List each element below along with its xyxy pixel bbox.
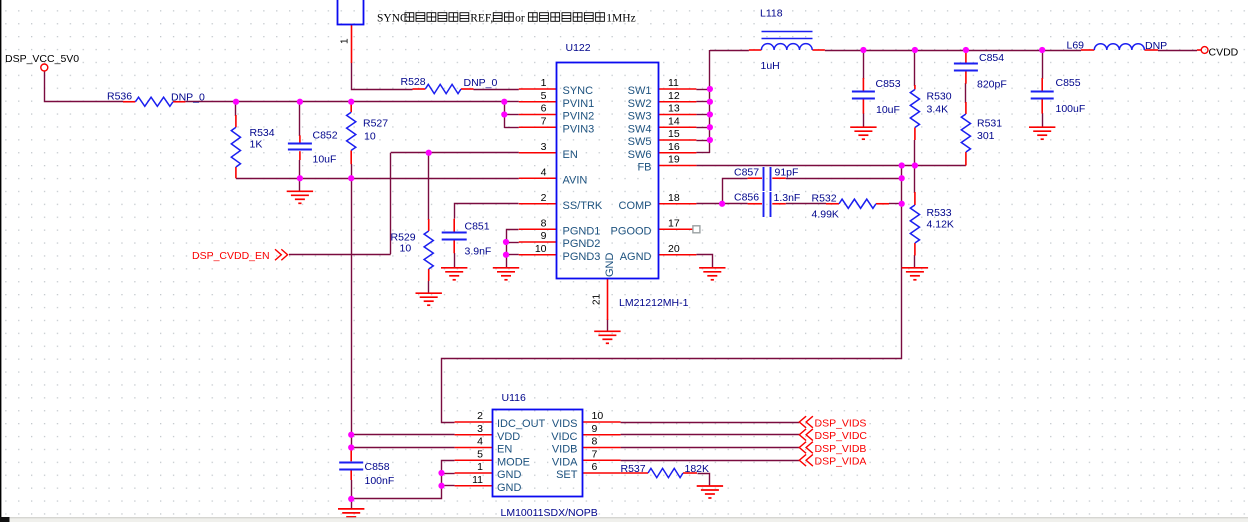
wire COMP to C856	[696, 203, 747, 205]
resistor R531	[961, 114, 970, 152]
svg-text:10: 10	[364, 131, 376, 143]
svg-text:3.4K: 3.4K	[927, 104, 949, 116]
wire VIDB row	[621, 447, 800, 449]
svg-text:301: 301	[977, 130, 995, 142]
wire DSP_VCC_5V0 to R536	[45, 72, 124, 102]
port DSP_VIDA	[799, 454, 813, 466]
svg-text:R537: R537	[621, 463, 646, 475]
wire SW6 link	[696, 152, 710, 154]
svg-text:VIDS: VIDS	[552, 418, 578, 430]
svg-text:3.9nF: 3.9nF	[465, 246, 492, 258]
capacitor C856	[763, 192, 765, 217]
svg-text:C856: C856	[734, 192, 759, 204]
svg-text:SYNC: SYNC	[377, 13, 408, 25]
U116 right pin stubs	[583, 422, 621, 473]
svg-text:10uF: 10uF	[313, 154, 337, 166]
svg-text:R531: R531	[977, 118, 1002, 130]
svg-text:R534: R534	[250, 127, 275, 139]
op-amp U116 body	[493, 410, 583, 497]
svg-text:16: 16	[668, 141, 680, 153]
wire C852 bottom	[299, 160, 301, 179]
wire connector pin1 to R528	[352, 63, 413, 90]
wire SW2 link	[696, 101, 710, 103]
component lead stubs	[123, 50, 1201, 480]
svg-text:EN: EN	[497, 444, 512, 456]
svg-text:1.3nF: 1.3nF	[774, 192, 801, 204]
U122 left pin stubs	[519, 89, 557, 255]
svg-text:6: 6	[592, 461, 598, 473]
svg-text:C855: C855	[1056, 77, 1081, 89]
wire VIDC row	[621, 434, 800, 436]
svg-text:VDD: VDD	[497, 431, 520, 443]
wire U116 GND pin1 stub	[442, 473, 455, 475]
svg-text:5: 5	[541, 90, 547, 102]
op-amp U122 body	[557, 63, 659, 279]
svg-text:DSP_VIDA: DSP_VIDA	[815, 456, 867, 468]
wire C855 top	[1042, 50, 1044, 79]
svg-text:13: 13	[668, 103, 680, 115]
svg-text:SYNC: SYNC	[563, 85, 594, 97]
wire R530 bottom	[914, 140, 916, 166]
svg-text:DSP_VCC_5V0: DSP_VCC_5V0	[5, 53, 79, 65]
ground R529	[416, 293, 442, 305]
wire R533 top	[914, 165, 916, 193]
svg-text:R532: R532	[812, 193, 837, 205]
capacitor C855	[1031, 91, 1054, 93]
svg-text:R533: R533	[927, 207, 952, 219]
ground U122 pin21	[594, 331, 620, 343]
wire DSP_CVDD_EN vertical	[390, 153, 392, 254]
wire SW5 link	[696, 140, 710, 142]
resistor R532	[839, 199, 876, 208]
svg-text:DNP_0: DNP_0	[171, 92, 205, 104]
svg-text:DSP_VIDB: DSP_VIDB	[815, 443, 867, 455]
wire PGND3 stub	[506, 254, 519, 256]
svg-text:U122: U122	[566, 42, 591, 54]
svg-text:VIDB: VIDB	[552, 444, 578, 456]
wire AGND to ground	[697, 255, 713, 268]
svg-text:COMP: COMP	[619, 200, 652, 212]
wire FB row	[696, 165, 966, 167]
svg-text:4: 4	[541, 166, 547, 178]
svg-text:AGND: AGND	[620, 251, 652, 263]
svg-text:100uF: 100uF	[1056, 103, 1086, 115]
wire SW3 link	[696, 114, 710, 116]
svg-text:5: 5	[477, 448, 483, 460]
svg-text:1MHz: 1MHz	[606, 13, 635, 25]
capacitor C857	[763, 167, 765, 191]
svg-text:PGND3: PGND3	[563, 251, 601, 263]
wire U116 VDD row	[351, 434, 454, 436]
svg-text:3: 3	[541, 141, 547, 153]
ground R537	[697, 486, 723, 498]
svg-text:18: 18	[668, 192, 680, 204]
wire R527 bottom	[351, 164, 353, 179]
svg-text:R530: R530	[927, 91, 952, 103]
port DSP_VCC_5V0	[41, 64, 48, 71]
port DSP_VIDB	[799, 442, 813, 454]
wire VIDA row	[621, 460, 800, 462]
wire L118 to L69 rail	[825, 50, 1081, 52]
svg-text:10: 10	[400, 243, 412, 255]
svg-text:VIDC: VIDC	[551, 431, 577, 443]
wire L69 to CVDD	[1158, 50, 1197, 52]
junction dots	[233, 99, 239, 105]
wire R537 to ground	[698, 474, 710, 487]
wire C854 to R531	[965, 83, 967, 103]
svg-text:15: 15	[668, 128, 680, 140]
svg-text:REF,: REF,	[470, 13, 493, 25]
svg-text:IDC_OUT: IDC_OUT	[497, 418, 546, 430]
connector J top	[338, 0, 364, 25]
svg-text:21: 21	[592, 293, 603, 305]
capacitor C851	[442, 232, 467, 234]
svg-text:1uH: 1uH	[761, 60, 780, 72]
svg-text:C854: C854	[979, 52, 1004, 64]
wire AVIN row	[351, 178, 519, 180]
svg-text:10: 10	[535, 243, 547, 255]
wire R533 ground stem	[914, 255, 916, 268]
wire PVIN2 stub	[504, 114, 519, 116]
resistor R528	[425, 84, 461, 93]
wire ground row R534/C852/R527	[236, 178, 351, 180]
svg-text:CVDD: CVDD	[1209, 47, 1239, 59]
wire R529 top	[428, 152, 430, 220]
svg-text:9: 9	[592, 423, 598, 435]
svg-text:DSP_VIDC: DSP_VIDC	[815, 430, 868, 442]
U116 left pin stubs	[455, 422, 493, 486]
svg-text:DSP_CVDD_EN: DSP_CVDD_EN	[192, 250, 270, 262]
svg-text:SET: SET	[556, 469, 578, 481]
wire C856 to R532	[786, 203, 826, 205]
svg-text:91pF: 91pF	[775, 167, 799, 179]
svg-text:SS/TRK: SS/TRK	[563, 200, 603, 212]
svg-text:or: or	[515, 13, 525, 25]
wire C853 ground stem	[863, 113, 865, 128]
svg-text:C852: C852	[313, 130, 338, 142]
ground C858	[338, 509, 364, 521]
wire C852 top	[299, 101, 301, 136]
svg-text:4.99K: 4.99K	[812, 209, 839, 221]
svg-text:C858: C858	[365, 461, 390, 473]
svg-text:DNP: DNP	[1145, 40, 1167, 52]
svg-text:U116: U116	[502, 392, 526, 404]
svg-text:R527: R527	[363, 118, 388, 130]
wire PVIN vertical bar	[504, 101, 506, 128]
wire C858 ground stem	[351, 498, 353, 509]
svg-text:C851: C851	[465, 221, 490, 233]
wire SW4 link	[696, 127, 710, 129]
inductor L69	[1094, 44, 1144, 50]
svg-text:2: 2	[541, 192, 547, 204]
ground AGND	[699, 268, 725, 280]
wire U116 GND pin11 stub	[442, 485, 455, 487]
wire EN row U122	[391, 152, 519, 154]
resistor R527	[347, 112, 356, 150]
capacitor C854	[954, 63, 978, 65]
wire C853 top	[863, 50, 865, 79]
svg-text:182K: 182K	[685, 463, 710, 475]
svg-text:EN: EN	[563, 149, 578, 161]
svg-text:L118: L118	[760, 8, 783, 20]
svg-text:10uF: 10uF	[876, 104, 900, 116]
svg-text:FB: FB	[637, 162, 651, 174]
svg-text:VIDA: VIDA	[552, 456, 578, 468]
svg-text:10: 10	[592, 410, 604, 422]
svg-text:GND: GND	[497, 469, 522, 481]
wire FB net down to U116 IDC_OUT	[442, 166, 902, 423]
wire U116 EN row	[351, 447, 454, 449]
svg-text:11: 11	[668, 77, 679, 89]
svg-text:1K: 1K	[250, 139, 263, 151]
svg-text:SW1: SW1	[628, 85, 652, 97]
svg-text:1: 1	[340, 38, 351, 44]
ground C853	[850, 127, 876, 139]
capacitor C853	[852, 91, 875, 93]
left border	[0, 0, 1, 518]
wire PVIN1 stub	[504, 101, 519, 103]
svg-text:PGND2: PGND2	[563, 238, 601, 250]
wire C857 branch	[723, 179, 748, 204]
wire PGND2 stub	[506, 242, 519, 244]
inductor L118	[761, 44, 812, 50]
capacitor C852	[288, 143, 312, 145]
svg-text:L69: L69	[1067, 40, 1085, 52]
resistor R530	[910, 90, 919, 128]
wire C852 ground stem	[299, 178, 301, 192]
U122 right pin stubs	[659, 89, 697, 255]
ground R533	[902, 268, 928, 280]
U122 pin 21 stub	[607, 279, 609, 320]
port CVDD	[1201, 47, 1208, 54]
ground PGND	[493, 268, 519, 280]
wire SS/TRK row	[455, 204, 519, 219]
svg-text:14: 14	[668, 115, 680, 127]
wire PVIN3 stub	[504, 127, 519, 129]
wire R530 top	[914, 50, 916, 86]
ground C855	[1029, 127, 1055, 139]
svg-text:19: 19	[668, 154, 680, 166]
svg-text:7: 7	[592, 448, 598, 460]
svg-text:1: 1	[541, 77, 547, 89]
resistor R536	[135, 97, 173, 106]
bottom scrollbar strip	[0, 518, 1248, 522]
resistor R533	[910, 205, 919, 243]
port DSP_VIDC	[799, 429, 813, 441]
svg-text:DNP_0: DNP_0	[464, 77, 498, 89]
svg-text:9: 9	[541, 230, 547, 242]
svg-text:1: 1	[477, 461, 483, 473]
svg-text:6: 6	[541, 103, 547, 115]
wire SW collector bar	[709, 50, 711, 153]
svg-text:PGOOD: PGOOD	[611, 225, 652, 237]
svg-text:PVIN1: PVIN1	[563, 98, 595, 110]
wire DSP_CVDD_EN row	[289, 254, 391, 256]
svg-text:C857: C857	[734, 167, 759, 179]
svg-text:4.12K: 4.12K	[927, 219, 954, 231]
wire VIDS row	[621, 422, 800, 424]
svg-text:AVIN: AVIN	[563, 174, 588, 186]
svg-text:20: 20	[668, 243, 680, 255]
svg-text:17: 17	[668, 217, 680, 229]
svg-text:R536: R536	[107, 91, 132, 103]
svg-text:C853: C853	[876, 78, 901, 90]
ground C852	[287, 191, 313, 203]
wire R528 to SYNC	[474, 89, 519, 91]
svg-text:PGND1: PGND1	[563, 225, 601, 237]
svg-text:LM10011SDX/NOPB: LM10011SDX/NOPB	[501, 507, 598, 519]
connector J pin 1 stub	[351, 24, 353, 63]
resistor R529	[424, 231, 433, 269]
svg-text:8: 8	[541, 217, 547, 229]
wire node AVIN to U116 VDD vertical	[351, 178, 353, 451]
svg-text:SW5: SW5	[628, 136, 652, 148]
svg-text:MODE: MODE	[497, 456, 530, 468]
wire U116 gnd row	[352, 461, 455, 499]
svg-text:2: 2	[477, 410, 483, 422]
wire R529 ground stem	[428, 281, 430, 294]
capacitor C858	[339, 462, 363, 464]
wire R532 right	[889, 203, 902, 205]
svg-text:SW3: SW3	[628, 111, 652, 123]
svg-text:LM21212MH-1: LM21212MH-1	[619, 297, 689, 309]
wire C851 ground stem	[454, 253, 456, 268]
svg-text:11: 11	[472, 474, 483, 486]
svg-text:100nF: 100nF	[365, 475, 395, 487]
svg-text:820pF: 820pF	[977, 79, 1007, 91]
svg-text:PVIN3: PVIN3	[563, 123, 595, 135]
wire R536 to PVIN rail	[185, 101, 504, 103]
svg-text:3: 3	[477, 423, 483, 435]
svg-text:7: 7	[541, 115, 547, 127]
svg-text:PVIN2: PVIN2	[563, 111, 595, 123]
wire C857 right	[786, 178, 902, 180]
wire SW1 link	[696, 89, 710, 91]
svg-text:SW6: SW6	[628, 149, 652, 161]
svg-text:SW2: SW2	[628, 98, 652, 110]
svg-text:R528: R528	[401, 76, 426, 88]
wire GND pin21 stem	[607, 319, 609, 332]
svg-text:GND: GND	[497, 482, 522, 494]
port DSP_VIDS	[799, 416, 813, 428]
resistor R534	[231, 127, 240, 167]
svg-text:12: 12	[668, 90, 680, 102]
wire output rail to L118	[710, 50, 749, 52]
svg-text:4: 4	[477, 436, 483, 448]
resistor R537	[648, 468, 683, 477]
wire C855 ground stem	[1042, 113, 1044, 128]
wire R534 top	[235, 101, 237, 116]
svg-text:8: 8	[592, 436, 598, 448]
wire PGND1 row	[507, 230, 519, 268]
no-connect marker pin 17	[693, 226, 700, 233]
svg-text:SW4: SW4	[628, 123, 652, 135]
svg-text:GND: GND	[604, 253, 616, 278]
ground C851	[441, 268, 467, 280]
wire C858 bottom	[351, 480, 353, 499]
svg-text:DSP_VIDS: DSP_VIDS	[815, 418, 867, 430]
